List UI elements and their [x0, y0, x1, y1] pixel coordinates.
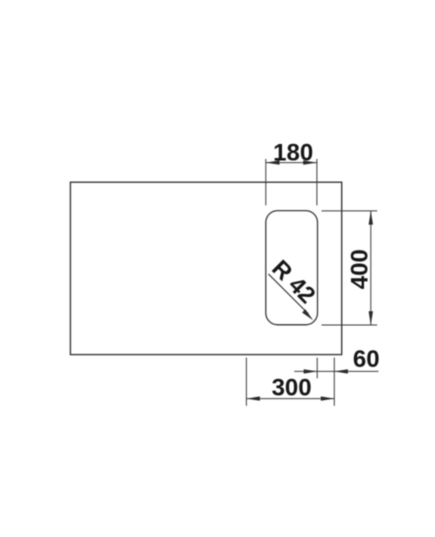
dim 60 dimension line: [294, 370, 378, 372]
dim 400 arrow down: [369, 311, 373, 325]
dim 180 arrow left: [266, 160, 280, 164]
dim 400 dimension line: [370, 211, 372, 325]
dim 400 extension line top: [322, 210, 378, 212]
worktop outline: [70, 182, 341, 354]
svg-text:180: 180: [273, 140, 313, 167]
svg-text:400: 400: [346, 249, 373, 289]
ext line below worktop at bowl right edge: [316, 358, 318, 379]
dim 180 arrow right: [303, 160, 317, 164]
dim 180 extension line left: [265, 159, 267, 205]
dim 300 arrow left: [246, 396, 260, 400]
dim 300 arrow right: [321, 396, 335, 400]
dim 180 dimension line: [266, 162, 317, 164]
dim 180 extension line right: [316, 159, 318, 205]
radius leader line: [268, 274, 308, 314]
dim 400 extension line bottom: [322, 324, 378, 326]
ext line below worktop at sink outer edge: [333, 358, 335, 406]
dim 60 arrow left: [304, 369, 318, 373]
radius leader arrow: [302, 309, 313, 320]
svg-text:300: 300: [272, 375, 312, 402]
ext line below worktop at dim 300 left: [245, 358, 247, 406]
dim 300 dimension line: [246, 398, 334, 400]
dim 60 arrow right: [334, 369, 348, 373]
sink bowl cutout: [266, 211, 318, 325]
dim 400 arrow up: [369, 211, 373, 225]
svg-text:60: 60: [353, 346, 380, 373]
